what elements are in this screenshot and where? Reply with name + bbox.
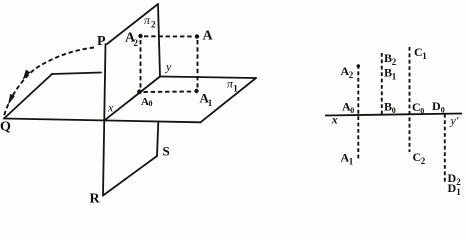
svg-text:2: 2 (151, 20, 156, 30)
dashed projector A0-A1 (144, 91, 193, 94)
svg-text:1: 1 (392, 72, 397, 82)
plane pi2 right edge upper (peak to axis corner) (158, 4, 160, 77)
svg-text:x: x (107, 101, 114, 115)
point A1 (194, 89, 198, 93)
dashed projector A-A1 (197, 40, 199, 88)
arrowhead on rotation arc (upper) (23, 70, 31, 81)
arrowhead on rotation arc (lower, toward Q) (8, 94, 15, 105)
svg-text:0: 0 (441, 106, 445, 115)
svg-text:D: D (448, 181, 457, 195)
plane pi2 bottom edge R-S (103, 156, 157, 196)
svg-text:2: 2 (349, 70, 354, 80)
svg-text:y: y (165, 60, 172, 74)
plane pi1 back edge right part (y-axis) (161, 77, 256, 79)
point A2 (138, 34, 142, 38)
svg-text:D: D (432, 99, 441, 113)
svg-text:S: S (163, 144, 170, 159)
svg-text:2: 2 (392, 57, 397, 67)
plane pi1 left edge Q-corner (4, 74, 52, 119)
plane pi1 back edge left part (52, 73, 101, 75)
svg-text:1: 1 (349, 157, 354, 167)
svg-text:A: A (203, 29, 214, 44)
plane pi2 right edge lower (front edge to S) (157, 122, 158, 156)
dashed projector A2-A0 (140, 40, 142, 88)
svg-text:x: x (331, 113, 338, 127)
dashed ordinate line through D0 (axis to D1) (444, 114, 446, 184)
svg-text:0: 0 (149, 99, 153, 108)
svg-text:π: π (144, 13, 151, 27)
svg-text:0: 0 (392, 106, 396, 115)
svg-text:P: P (97, 34, 106, 49)
svg-text:1: 1 (208, 98, 213, 108)
plane pi1 right edge (201, 78, 257, 122)
dashed ordinate line through A0 (A2 to A1) (357, 65, 359, 160)
svg-text:y′: y′ (450, 114, 459, 128)
svg-text:0: 0 (420, 107, 424, 116)
plane pi2 top edge P-peak (107, 4, 158, 44)
x axis diagonal (intersection of pi1 and pi2) (104, 77, 160, 121)
svg-text:1: 1 (456, 187, 461, 197)
point A (195, 34, 199, 38)
dashed ordinate line through B0 (B2 to axis) (381, 53, 383, 115)
point A0 (137, 89, 142, 94)
point A2 tick (right diagram) (357, 64, 361, 68)
svg-text:2: 2 (456, 177, 461, 187)
dashed projector A2-A (144, 35, 193, 37)
svg-text:R: R (90, 192, 101, 206)
dashed ordinate line through C0 (C1 to C2) (409, 47, 411, 152)
plane pi2 left edge P-R (103, 44, 106, 196)
svg-text:2: 2 (134, 38, 139, 48)
svg-text:0: 0 (350, 106, 354, 115)
svg-text:1: 1 (422, 51, 427, 61)
right diagram: x-y' axis line (325, 114, 462, 116)
svg-text:2: 2 (421, 156, 426, 166)
svg-text:1: 1 (233, 84, 238, 94)
svg-text:Q: Q (0, 120, 11, 135)
rotation arc from P to Q (4, 48, 94, 117)
plane pi1 front edge Q-right (4, 119, 201, 123)
